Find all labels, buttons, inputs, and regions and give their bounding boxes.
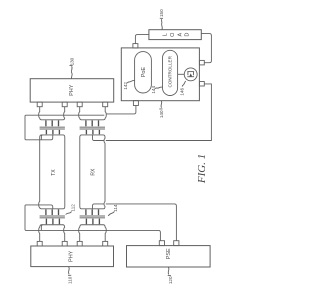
- svg-text:L: L: [163, 33, 169, 36]
- transformer T4 PHY-side winding with hop bulges: [79, 225, 107, 242]
- transformer T2 upper PHY-side winding with hop bulges: [79, 107, 107, 120]
- reference 142 leader: [127, 81, 134, 83]
- reference 150 leader: [160, 18, 163, 29]
- svg-text:144: 144: [151, 86, 156, 94]
- reference 140 leader: [159, 101, 162, 109]
- wire PD feed from pin column 4 to PD bottom port: [106, 106, 136, 114]
- transistor Q146 gate bar: [187, 76, 194, 78]
- wire TX pair loop (T1 cable side to lower T1): [39, 135, 65, 209]
- pin 3 upper PHY: [77, 102, 82, 107]
- pin top PD: [133, 44, 138, 48]
- wire RX pair loop (T2 cable side to lower T2) with hop bulges: [80, 135, 105, 209]
- transformer T4 secondary loops: [86, 219, 99, 225]
- reference 144 leader: [155, 87, 163, 89]
- svg-text:D: D: [184, 33, 190, 37]
- svg-text:CONTROLLER: CONTROLLER: [168, 55, 173, 87]
- PD box 140: [121, 48, 199, 101]
- wire T2 center tap to PD return: [92, 135, 104, 141]
- pin right 1 PD: [199, 60, 204, 65]
- pin right 2 PD: [199, 82, 204, 87]
- transformer T4 core: [80, 216, 105, 218]
- svg-text:110: 110: [68, 276, 73, 284]
- wire controller gate to transistor Q146: [178, 73, 185, 75]
- wire T3 secondary left end rise: [41, 225, 42, 231]
- svg-text:PoE: PoE: [141, 67, 147, 78]
- PHY box U130 (upper): [30, 79, 114, 102]
- svg-text:112: 112: [70, 204, 75, 212]
- svg-text:PHY: PHY: [68, 250, 74, 262]
- svg-text:PSE: PSE: [166, 248, 172, 259]
- reference 146 leader: [182, 81, 186, 87]
- PHY box U110 (lower): [31, 246, 114, 267]
- reference 130 leader: [70, 65, 73, 78]
- PoE module 142: [135, 52, 152, 93]
- pin 1 upper PHY: [37, 102, 42, 107]
- transformer T3 secondary loops: [46, 219, 59, 225]
- transformer T3 core: [40, 216, 65, 218]
- wire DC return lower: wrap around T3 and run to PSE pin 1: [25, 205, 160, 241]
- transformer T2 upper secondary loops: [86, 130, 99, 134]
- pin 1 lower PHY: [37, 241, 42, 246]
- svg-text:O: O: [170, 32, 176, 37]
- pin 4 upper PHY: [103, 102, 108, 107]
- PSE box 120: [127, 246, 211, 267]
- controller 144: [163, 50, 178, 95]
- transformer T3 lower (cable side top) primary loops: [46, 209, 59, 215]
- wire T4 center tap to PSE pin 2: [92, 204, 176, 241]
- pin bottom PD: [133, 101, 138, 106]
- LOAD box 150: [149, 30, 201, 40]
- transformer T3 PHY-side winding with hop bulges: [39, 225, 65, 242]
- svg-text:120: 120: [168, 276, 173, 284]
- svg-text:140: 140: [159, 110, 164, 118]
- wire DC feed upper: rect wrap around T1, taps T1 secondary center: [25, 115, 104, 140]
- svg-text:PHY: PHY: [69, 84, 75, 96]
- reference 120 leader: [168, 267, 171, 275]
- wire PD return run to right riser: [106, 84, 212, 141]
- svg-text:FIG. 1: FIG. 1: [196, 154, 208, 184]
- transformer T4 lower primary loops: [86, 209, 99, 215]
- transistor Q146 channel bar: [187, 71, 194, 73]
- transformer T1 upper primary loops: [46, 120, 59, 126]
- transformer T1 upper secondary loops: [46, 130, 59, 134]
- svg-text:142: 142: [123, 82, 128, 90]
- pin 3 lower PHY: [77, 241, 82, 246]
- svg-text:RX: RX: [90, 168, 96, 176]
- transformer T2 upper primary loops: [86, 120, 99, 126]
- pin 2 lower PHY: [62, 241, 67, 246]
- transformer T2 upper core: [80, 127, 105, 129]
- wire PD top port to LOAD left: [135, 35, 149, 44]
- pin 4 lower PHY: [103, 241, 108, 246]
- svg-text:114: 114: [113, 204, 118, 212]
- reference 114 leader: [108, 211, 114, 216]
- pin 2 upper PHY: [62, 102, 67, 107]
- reference 112 leader: [66, 211, 72, 214]
- wire LOAD right to PD pin right 1: [201, 34, 211, 63]
- transistor Q146 source and drain stubs: [188, 72, 194, 76]
- transformer T1 upper PHY-side winding with hop bulges: [39, 107, 65, 120]
- pin 2 PSE: [174, 241, 179, 246]
- svg-text:130: 130: [69, 57, 74, 65]
- svg-text:150: 150: [159, 9, 164, 17]
- transformer T1 upper core: [40, 127, 65, 129]
- svg-text:A: A: [178, 33, 184, 37]
- transistor Q146 circle: [184, 68, 197, 81]
- svg-text:146: 146: [180, 88, 185, 96]
- pin 1 PSE: [159, 241, 164, 246]
- wire T1 secondary left end drop: [41, 135, 42, 140]
- transistor Q146 arrow: [189, 73, 192, 76]
- wire T3 center tap riser: [51, 205, 53, 209]
- reference 110 leader: [68, 267, 71, 275]
- svg-text:TX: TX: [51, 169, 57, 176]
